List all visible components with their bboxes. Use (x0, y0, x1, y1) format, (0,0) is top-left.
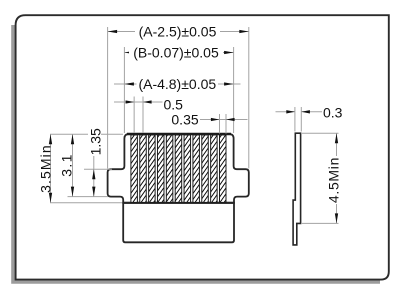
dimension 4.5Min (326, 133, 342, 223)
pin column 11 (220, 135, 227, 202)
dimension (A-2.5)±0.05 (108, 23, 249, 168)
svg-text:1.35: 1.35 (87, 128, 103, 155)
dimension 0.35 conductor width (170, 111, 248, 133)
dimension (A-4.8)±0.05 (114, 76, 241, 92)
dimension (B-0.07)±0.05 (124, 44, 233, 133)
reference line side top (302, 132, 339, 134)
dimension 0.5 pitch (114, 97, 183, 134)
pin column 4 (157, 135, 164, 202)
dimension 3.1 (59, 134, 75, 196)
reference line part top (50, 133, 123, 135)
bottom block (123, 203, 234, 243)
svg-text:3.1: 3.1 (59, 153, 75, 176)
frame shadow (11, 25, 380, 284)
side profile (293, 133, 301, 245)
reference line ear top (84, 168, 112, 170)
dimension 1.35 (87, 128, 103, 197)
svg-text:(B-0.07)±0.05: (B-0.07)±0.05 (133, 44, 219, 60)
reference line side step (302, 222, 339, 224)
hatch bottom line (123, 202, 234, 204)
reference line ear bottom (68, 196, 109, 198)
pin column 5 (166, 135, 173, 202)
pin column 6 (175, 135, 182, 202)
svg-text:0.3: 0.3 (323, 105, 343, 121)
pin column 1 (131, 135, 138, 202)
pin column 9 (202, 135, 209, 202)
svg-text:0.5: 0.5 (164, 97, 184, 113)
svg-text:(A-2.5)±0.05: (A-2.5)±0.05 (139, 23, 217, 39)
pin column 2 (140, 135, 147, 202)
dimension 3.5Min (38, 134, 54, 203)
svg-text:4.5Min: 4.5Min (326, 157, 342, 203)
svg-text:(A-4.8)±0.05: (A-4.8)±0.05 (138, 76, 216, 92)
pin column 3 (149, 135, 156, 202)
svg-text:3.5Min: 3.5Min (38, 144, 54, 193)
pin column 8 (193, 135, 200, 202)
pin column 7 (184, 135, 191, 202)
part top edge bold (127, 133, 231, 136)
dimension 0.3 thickness (276, 105, 343, 132)
svg-text:0.35: 0.35 (171, 111, 198, 127)
pin column 10 (211, 135, 218, 202)
body outline (108, 134, 249, 203)
pin columns (hatched conductors) (131, 135, 226, 202)
reference line bottom block top (50, 202, 122, 204)
